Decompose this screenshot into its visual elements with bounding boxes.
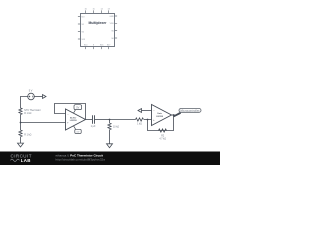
svg-text:1 µF: 1 µF bbox=[91, 125, 96, 128]
ground (below R4) bbox=[18, 143, 24, 147]
U1 feedback wire bbox=[55, 104, 86, 120]
wire ground to U2 top input bbox=[142, 110, 152, 112]
svg-text:R 1 kΩ: R 1 kΩ bbox=[24, 135, 31, 137]
thermistor R1 zigzag bbox=[19, 108, 22, 115]
wire node A to buffer input bbox=[21, 122, 66, 124]
voltage source V1 bbox=[28, 93, 35, 100]
microcontroller flag tail bbox=[173, 112, 181, 117]
svg-text:LM358: LM358 bbox=[156, 116, 164, 118]
wire R4 to ground bbox=[20, 137, 22, 143]
svg-text:NTC Thermistor: NTC Thermistor bbox=[24, 109, 41, 112]
multiplexer bottom pins bbox=[86, 47, 109, 50]
wire capacitor to node B bbox=[95, 119, 110, 121]
CircuitLab logo wave bbox=[11, 159, 20, 161]
wire V1 left down to thermistor bbox=[21, 97, 28, 109]
ground (rotated, right of V1) bbox=[43, 95, 47, 99]
wire node B down to R5 bbox=[109, 120, 111, 124]
svg-text:Buffer: Buffer bbox=[70, 117, 77, 119]
footer bar bbox=[0, 152, 220, 166]
wire V1 right to ground bbox=[34, 96, 42, 98]
wire node A down to R4 bbox=[20, 123, 22, 131]
U1 V+ flag 5V bbox=[74, 105, 82, 110]
svg-text:NO: NO bbox=[82, 16, 85, 18]
wire U1 output to capacitor bbox=[86, 119, 93, 121]
svg-text:1 kΩ: 1 kΩ bbox=[137, 124, 142, 126]
svg-text:4.7 kΩ: 4.7 kΩ bbox=[159, 139, 166, 141]
node B junction bbox=[109, 119, 111, 121]
multiplexer U3 body bbox=[81, 14, 115, 47]
resistor R6 zigzag (horizontal) bbox=[136, 118, 144, 121]
node C junction bbox=[147, 119, 149, 121]
resistor R4 zigzag bbox=[19, 130, 22, 137]
resistor R5 zigzag bbox=[108, 123, 111, 130]
node A junction bbox=[20, 122, 22, 124]
wire node B to R6 bbox=[110, 119, 136, 121]
capacitor C1 bbox=[93, 115, 95, 123]
resistor R2 zigzag (horizontal, feedback) bbox=[159, 129, 167, 132]
multiplexer left pin names bbox=[82, 16, 86, 41]
svg-text:Multiplexer: Multiplexer bbox=[89, 21, 108, 25]
svg-text:Gain: Gain bbox=[157, 113, 163, 115]
svg-text:R 1 kΩ: R 1 kΩ bbox=[24, 113, 31, 115]
U2 feedback wire left segment and riser bbox=[148, 120, 159, 131]
multiplexer top pin numbers bbox=[84, 9, 110, 11]
U1 V- pin stem bbox=[74, 126, 76, 129]
multiplexer left pins bbox=[78, 17, 81, 40]
op-amp U2 gain bbox=[152, 105, 172, 126]
svg-text:5V: 5V bbox=[76, 106, 79, 109]
svg-text:5 V: 5 V bbox=[29, 90, 33, 93]
svg-text:LM358: LM358 bbox=[70, 120, 78, 122]
multiplexer right pin names bbox=[109, 16, 114, 40]
wire R5 to ground bbox=[109, 130, 111, 144]
svg-text:LAB: LAB bbox=[21, 158, 31, 163]
ground (rotated, at U2 noninverting input) bbox=[138, 109, 142, 113]
U2 feedback wire right riser and bottom rail bbox=[159, 115, 174, 131]
wire U2 output bbox=[172, 114, 176, 116]
ground (below R5) bbox=[107, 144, 113, 148]
svg-text:VDD: VDD bbox=[110, 23, 115, 25]
node D junction bbox=[173, 114, 175, 116]
U1 V+ pin stem bbox=[74, 110, 76, 113]
multiplexer bottom pin numbers bbox=[84, 44, 111, 46]
svg-text:Microcontroller: Microcontroller bbox=[181, 108, 200, 112]
svg-text:10 kΩ: 10 kΩ bbox=[113, 127, 119, 129]
multiplexer top pins bbox=[86, 10, 109, 13]
svg-text:GND: GND bbox=[109, 16, 114, 18]
multiplexer right pins bbox=[115, 16, 118, 38]
wire thermistor to node A bbox=[20, 115, 22, 123]
wire R6 to node C bbox=[144, 119, 152, 121]
U1 V- flag bbox=[75, 129, 81, 133]
microcontroller flag bbox=[179, 109, 201, 113]
op-amp U1 buffer bbox=[66, 109, 86, 130]
svg-text:http://circuitlab.com/c/pd8f3p: http://circuitlab.com/c/pd8f3pyhvc32a bbox=[56, 158, 106, 162]
